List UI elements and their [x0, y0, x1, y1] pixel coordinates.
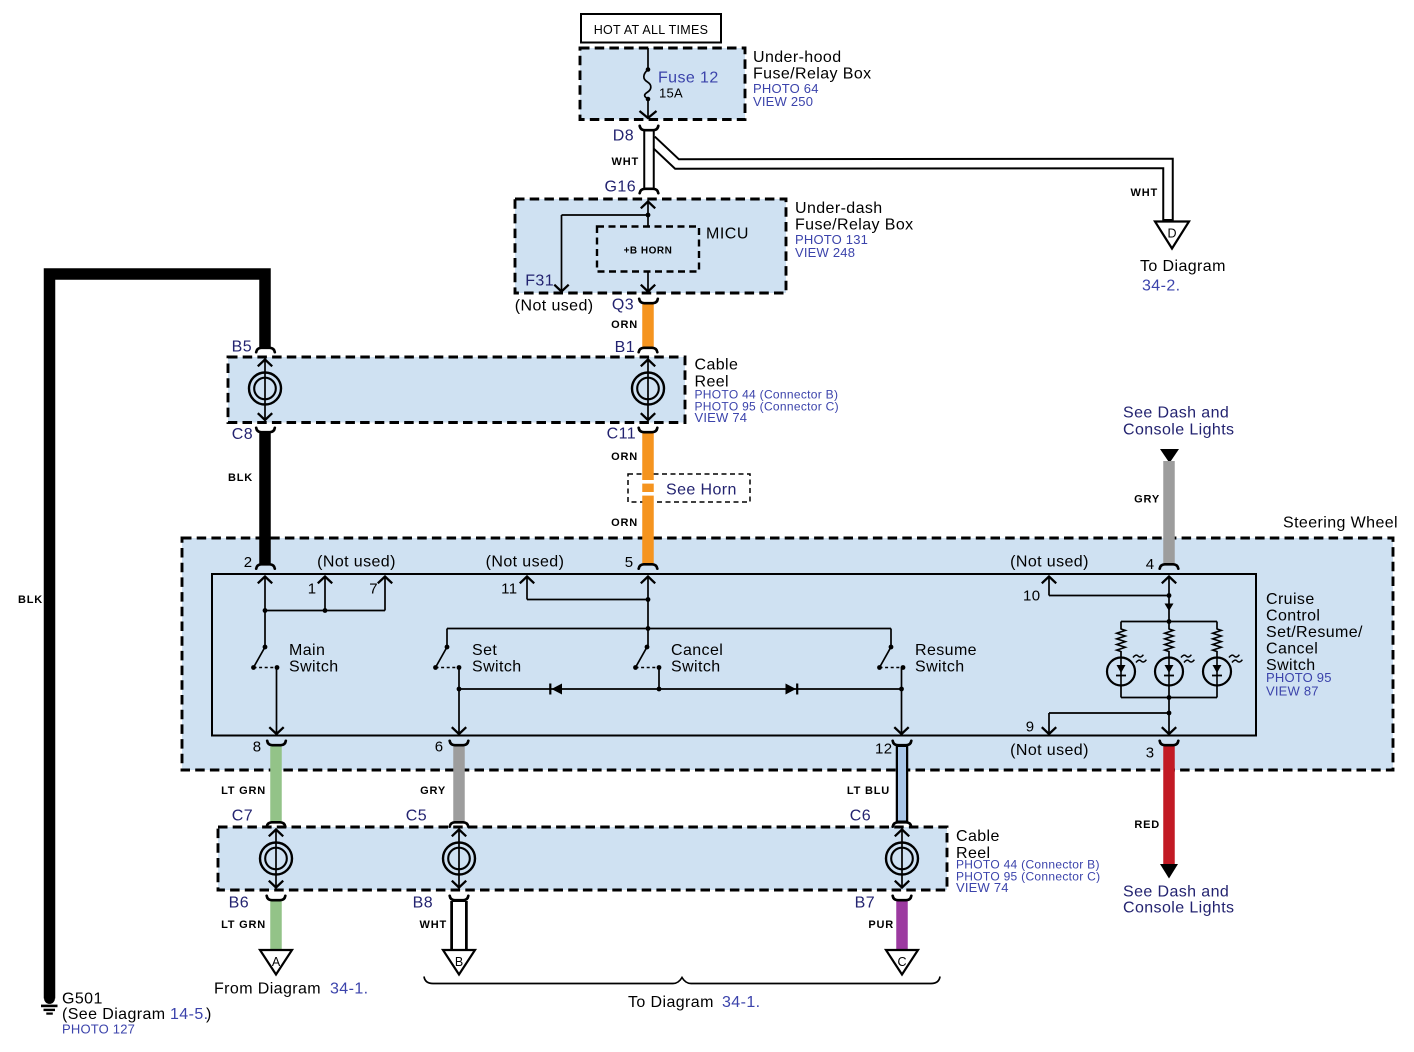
svg-text:BLK: BLK [18, 594, 43, 606]
svg-text:LT GRN: LT GRN [221, 919, 266, 931]
svg-text:C8: C8 [232, 426, 253, 443]
svg-text:14-5.: 14-5. [170, 1006, 208, 1023]
svg-text:12: 12 [875, 741, 893, 758]
svg-text:Main: Main [289, 642, 325, 659]
svg-text:7: 7 [369, 581, 378, 598]
svg-text:(Not used): (Not used) [515, 298, 594, 315]
svg-text:ORN: ORN [611, 451, 638, 463]
svg-text:LT BLU: LT BLU [847, 785, 890, 797]
svg-text:Switch: Switch [289, 659, 339, 676]
svg-text:B: B [455, 955, 463, 969]
svg-text:Switch: Switch [915, 659, 965, 676]
svg-text:VIEW 248: VIEW 248 [795, 245, 855, 260]
svg-text:Cable: Cable [695, 357, 739, 374]
svg-text:D8: D8 [613, 128, 634, 145]
svg-text:VIEW 74: VIEW 74 [956, 880, 1009, 895]
svg-text:To Diagram: To Diagram [628, 994, 714, 1011]
svg-text:B8: B8 [413, 895, 433, 912]
svg-text:Fuse/Relay Box: Fuse/Relay Box [753, 66, 872, 83]
svg-text:See Dash and: See Dash and [1123, 884, 1229, 901]
svg-text:(See Diagram: (See Diagram [62, 1006, 166, 1023]
svg-text:Cable: Cable [956, 828, 1000, 845]
svg-text:RED: RED [1134, 819, 1160, 831]
svg-text:To Diagram: To Diagram [1140, 258, 1226, 275]
svg-text:See Dash and: See Dash and [1123, 405, 1229, 422]
svg-text:Steering Wheel: Steering Wheel [1283, 515, 1398, 532]
svg-text:10: 10 [1023, 588, 1041, 605]
svg-text:5: 5 [625, 554, 634, 571]
svg-text:): ) [206, 1006, 212, 1023]
svg-text:34-1.: 34-1. [722, 994, 760, 1011]
svg-text:11: 11 [501, 581, 517, 598]
svg-text:34-2.: 34-2. [1142, 278, 1180, 295]
svg-text:2: 2 [244, 554, 253, 571]
svg-text:6: 6 [435, 739, 444, 756]
svg-text:Under-hood: Under-hood [753, 49, 842, 66]
svg-text:Q3: Q3 [612, 297, 634, 314]
svg-text:GRY: GRY [420, 785, 446, 797]
svg-text:Console Lights: Console Lights [1123, 422, 1234, 439]
svg-text:D: D [1167, 227, 1176, 241]
svg-text:WHT: WHT [420, 919, 447, 931]
svg-text:C5: C5 [406, 808, 427, 825]
svg-text:VIEW 250: VIEW 250 [753, 94, 813, 109]
svg-text:B5: B5 [232, 339, 252, 356]
svg-text:G16: G16 [605, 179, 636, 196]
svg-text:3: 3 [1146, 745, 1155, 762]
svg-text:Cancel: Cancel [1266, 641, 1318, 658]
svg-text:8: 8 [253, 739, 262, 756]
svg-text:C7: C7 [232, 808, 253, 825]
svg-text:C: C [897, 955, 906, 969]
svg-text:PUR: PUR [868, 919, 894, 931]
svg-text:(Not used): (Not used) [1010, 742, 1089, 759]
svg-text:C11: C11 [607, 426, 636, 443]
svg-text:4: 4 [1146, 556, 1155, 573]
svg-text:Switch: Switch [671, 659, 721, 676]
svg-text:B1: B1 [615, 339, 635, 356]
svg-text:F31: F31 [525, 273, 554, 290]
svg-text:PHOTO 127: PHOTO 127 [62, 1022, 135, 1037]
svg-text:BLK: BLK [228, 472, 253, 484]
svg-text:34-1.: 34-1. [330, 981, 368, 998]
svg-text:Set/Resume/: Set/Resume/ [1266, 624, 1363, 641]
svg-text:Cancel: Cancel [671, 642, 723, 659]
svg-text:(Not used): (Not used) [1010, 554, 1089, 571]
svg-text:From Diagram: From Diagram [214, 981, 321, 998]
svg-text:See Horn: See Horn [666, 482, 737, 499]
svg-text:B7: B7 [855, 895, 875, 912]
svg-text:ORN: ORN [611, 517, 638, 529]
svg-text:(Not used): (Not used) [317, 554, 396, 571]
svg-text:LT GRN: LT GRN [221, 785, 266, 797]
svg-text:Control: Control [1266, 608, 1320, 625]
svg-text:+B HORN: +B HORN [624, 246, 673, 257]
svg-text:Fuse/Relay Box: Fuse/Relay Box [795, 217, 914, 234]
svg-text:ORN: ORN [611, 319, 638, 331]
svg-text:B6: B6 [229, 895, 249, 912]
svg-text:C6: C6 [850, 808, 871, 825]
svg-text:Under-dash: Under-dash [795, 200, 883, 217]
svg-text:MICU: MICU [706, 226, 749, 243]
svg-text:15A: 15A [659, 86, 683, 101]
svg-text:A: A [272, 955, 281, 969]
svg-text:(Not used): (Not used) [486, 554, 565, 571]
svg-text:WHT: WHT [1131, 187, 1158, 199]
svg-text:G501: G501 [62, 991, 103, 1008]
svg-text:Fuse 12: Fuse 12 [658, 70, 719, 87]
svg-text:VIEW 87: VIEW 87 [1266, 684, 1319, 699]
svg-text:WHT: WHT [612, 156, 639, 168]
svg-text:Resume: Resume [915, 642, 977, 659]
svg-text:Cruise: Cruise [1266, 591, 1315, 608]
svg-text:Set: Set [472, 642, 497, 659]
svg-text:Console Lights: Console Lights [1123, 900, 1234, 917]
svg-text:GRY: GRY [1134, 494, 1160, 506]
svg-text:9: 9 [1026, 719, 1035, 736]
svg-text:Switch: Switch [472, 659, 522, 676]
svg-text:1: 1 [308, 581, 317, 598]
svg-text:HOT AT ALL TIMES: HOT AT ALL TIMES [594, 23, 709, 37]
svg-text:VIEW 74: VIEW 74 [695, 410, 748, 425]
